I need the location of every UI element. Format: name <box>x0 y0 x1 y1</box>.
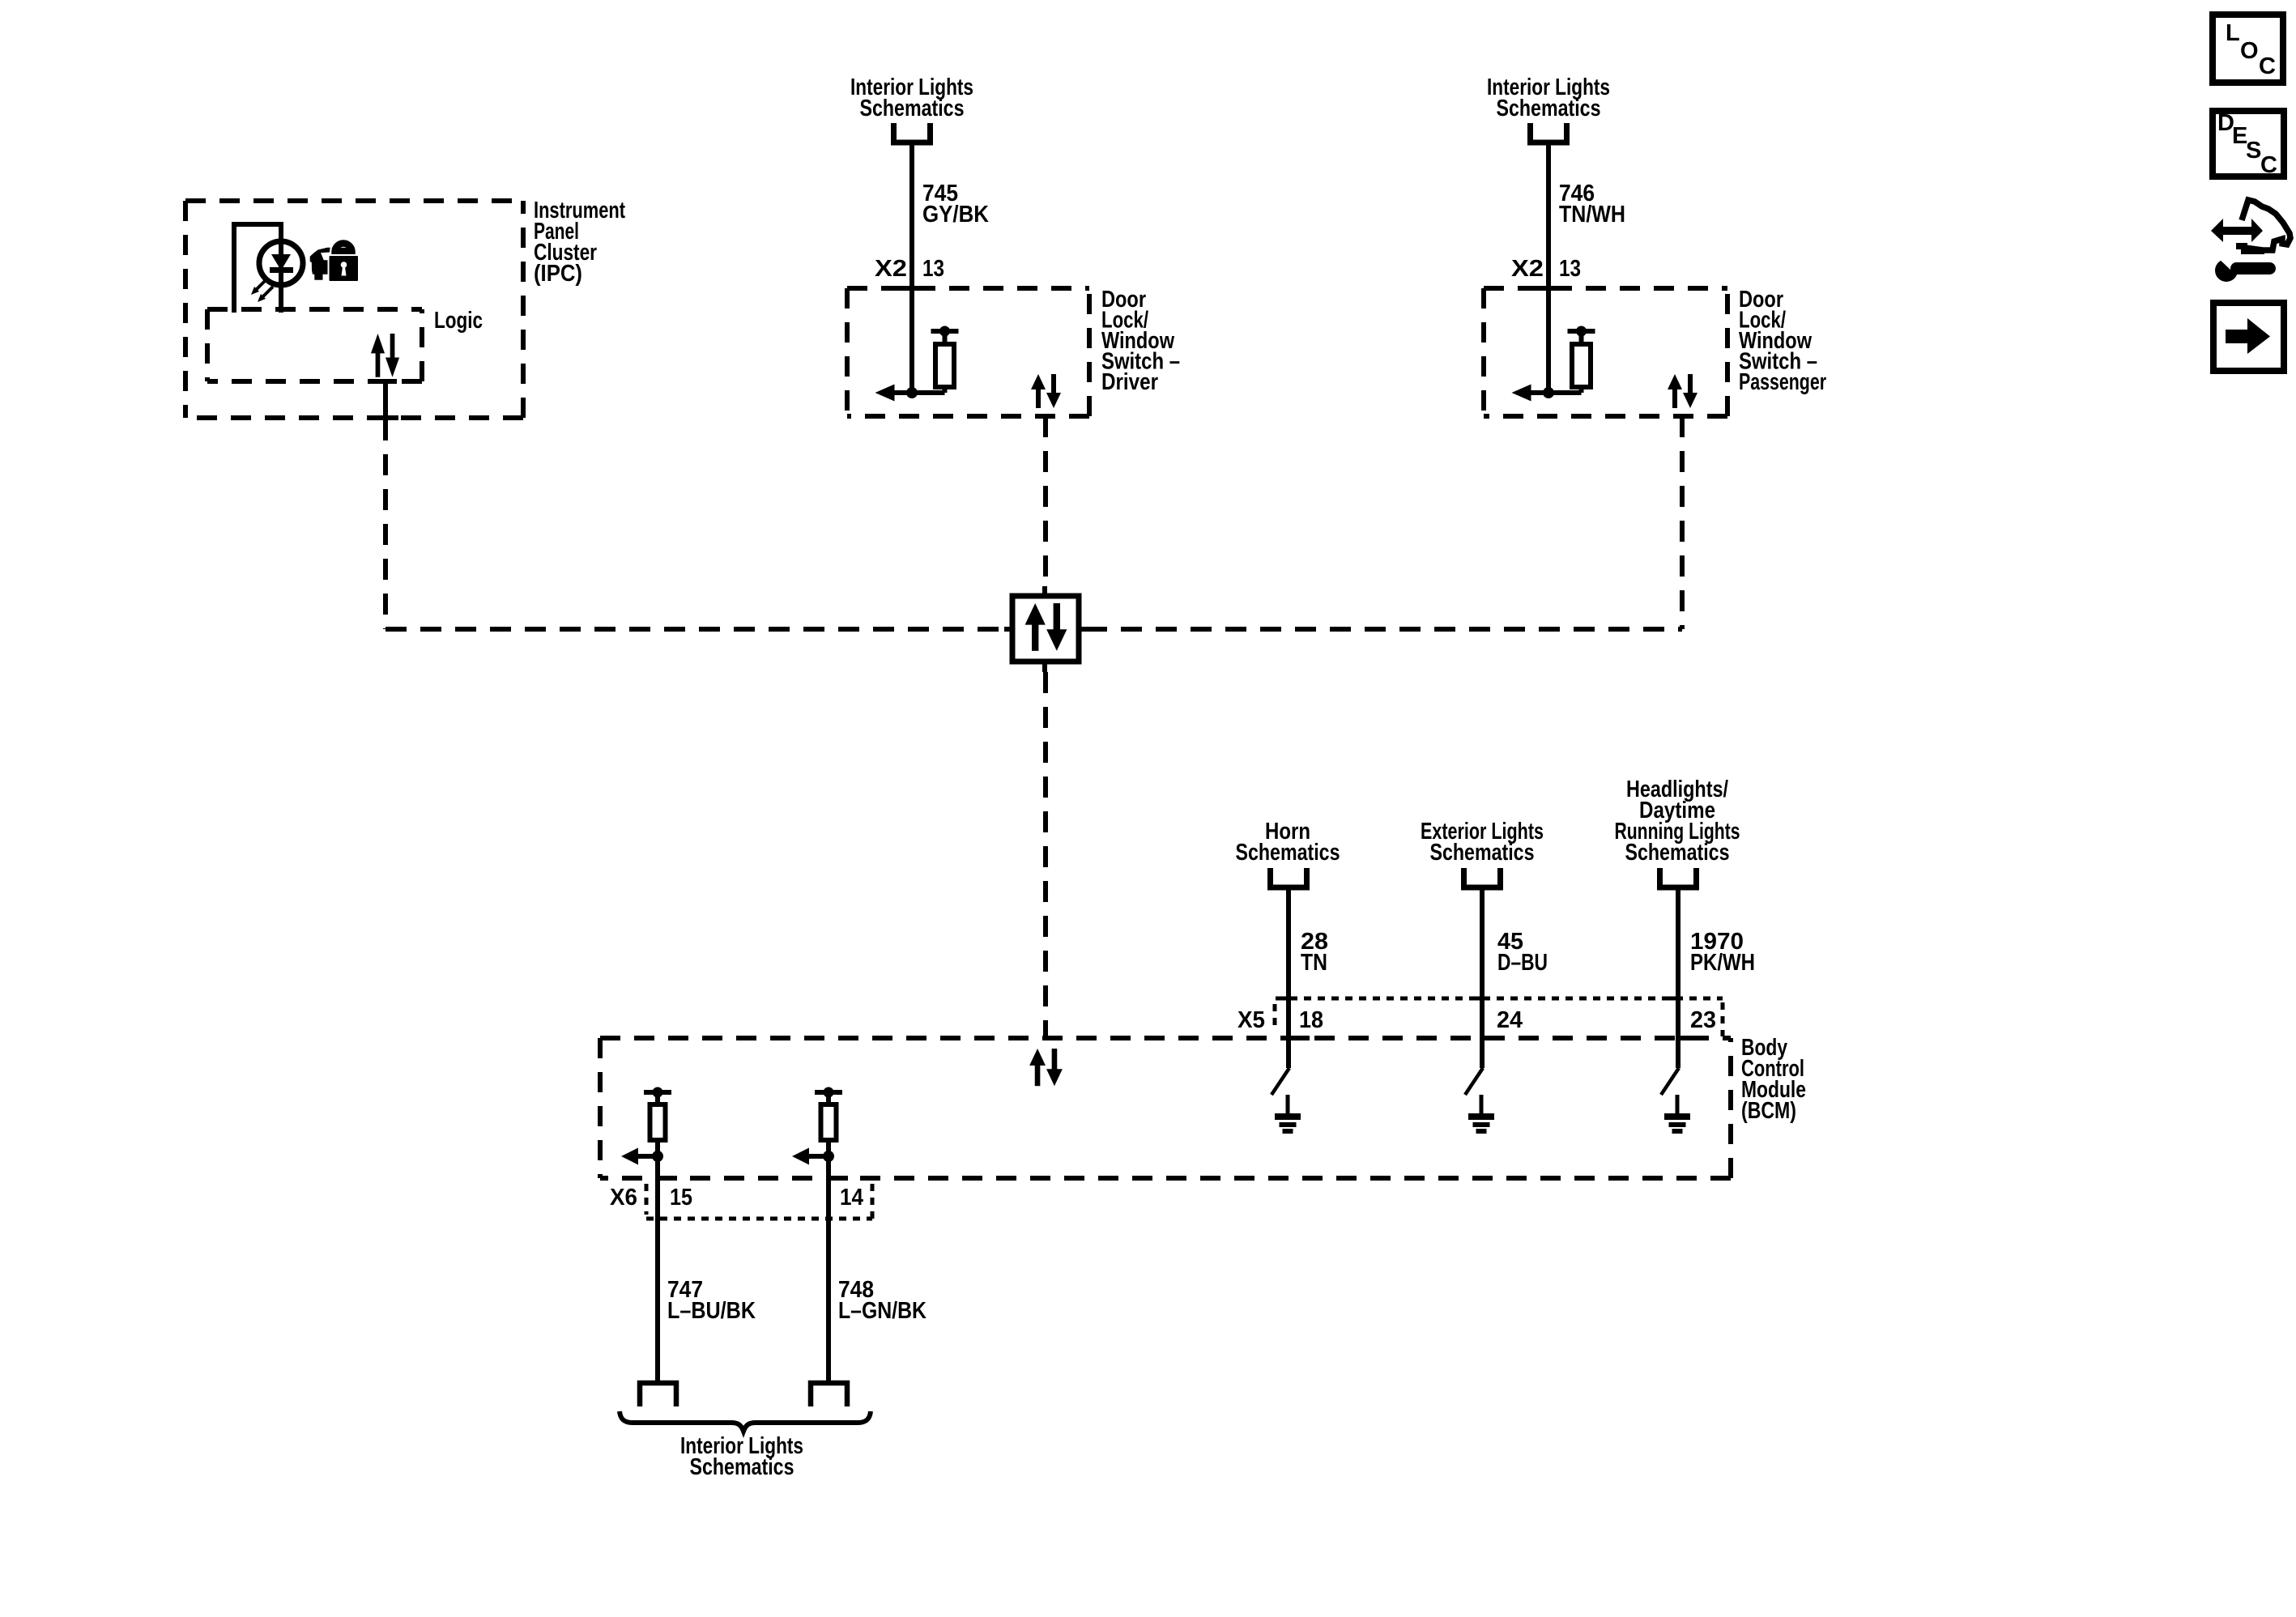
X5 wire ticks <box>1276 998 1699 1038</box>
svg-text:L–GN/BK: L–GN/BK <box>838 1298 926 1324</box>
switch arrows driver <box>1031 374 1061 408</box>
label 748 L-GN/BK <box>838 1277 926 1324</box>
body control module box <box>600 1036 1731 1040</box>
door lock/window switch passenger box <box>1484 286 1727 291</box>
svg-text:Schematics: Schematics <box>860 96 965 121</box>
bus dashed left <box>386 627 1006 632</box>
tick at IPC box bottom <box>376 415 398 420</box>
LED light arrows <box>251 279 273 302</box>
tick at logic box bottom <box>374 379 397 384</box>
svg-text:15: 15 <box>670 1185 692 1211</box>
next-schematic arrow box <box>2213 303 2284 371</box>
svg-text:23: 23 <box>1690 1007 1716 1033</box>
X6 dotted strip <box>646 1184 872 1219</box>
wire 745 <box>909 143 914 393</box>
switch arrows passenger <box>1668 374 1698 408</box>
svg-text:(BCM): (BCM) <box>1741 1098 1796 1124</box>
LED diode line <box>279 241 283 313</box>
svg-text:O: O <box>2240 38 2259 64</box>
wire logic to IPC edge <box>383 381 388 418</box>
terminal 747 <box>640 1383 676 1406</box>
LED telltale loop <box>234 224 281 313</box>
svg-text:GY/BK: GY/BK <box>922 202 989 228</box>
svg-text:C: C <box>2259 53 2276 79</box>
svg-text:L: L <box>2226 20 2240 46</box>
svg-text:L–BU/BK: L–BU/BK <box>667 1298 756 1324</box>
horn bracket <box>1271 868 1307 887</box>
header text driver <box>850 74 973 121</box>
svg-text:(IPC): (IPC) <box>534 261 582 287</box>
off-page bracket driver <box>894 123 931 143</box>
service/hand-wrench icon <box>2211 200 2290 282</box>
horn header <box>1236 819 1340 866</box>
BCM resistor branch 747 <box>621 1087 671 1165</box>
svg-text:PK/WH: PK/WH <box>1690 950 1755 976</box>
rheostat driver <box>875 326 959 402</box>
bus node ticks <box>1004 586 1087 672</box>
under brace <box>620 1411 871 1432</box>
header text passenger <box>1487 74 1610 121</box>
LED cathode bar <box>270 267 293 273</box>
label 747 L-BU/BK <box>667 1277 756 1324</box>
BCM label <box>1741 1035 1806 1124</box>
label 1970 PK/WH <box>1690 929 1755 976</box>
X6 wire ticks <box>659 1176 848 1181</box>
svg-text:Schematics: Schematics <box>1236 840 1340 866</box>
headlights bracket <box>1660 868 1697 887</box>
bus node box <box>1012 596 1079 662</box>
exterior lights header <box>1421 819 1544 866</box>
headlights switch to ground <box>1661 1068 1690 1134</box>
svg-text:X6: X6 <box>610 1185 637 1211</box>
dashed drop from IPC <box>383 419 388 629</box>
label 45 D-BU <box>1497 929 1548 976</box>
svg-text:Passenger: Passenger <box>1739 369 1826 395</box>
svg-text:Schematics: Schematics <box>1430 840 1535 866</box>
wire 747 <box>655 1156 660 1381</box>
BCM resistor branch 748 <box>792 1087 842 1165</box>
dashed drop from passenger box <box>1680 416 1685 629</box>
svg-text:TN: TN <box>1301 950 1327 976</box>
label 746 TN/WH <box>1559 181 1625 228</box>
tick at X2 crossing driver <box>897 286 930 291</box>
bus node arrows <box>1025 603 1067 651</box>
svg-text:Driver: Driver <box>1101 369 1158 395</box>
bus dashed right <box>1086 627 1682 632</box>
headlights header <box>1615 777 1740 866</box>
tick at X2 crossing passenger <box>1534 286 1566 291</box>
terminal 748 <box>811 1383 847 1406</box>
svg-text:TN/WH: TN/WH <box>1559 202 1625 228</box>
svg-text:C: C <box>2260 152 2277 178</box>
LED diode triangle <box>271 254 291 270</box>
exterior switch to ground <box>1465 1068 1494 1134</box>
svg-text:24: 24 <box>1497 1007 1523 1033</box>
car with lock telltale icon <box>310 244 360 283</box>
dashed drop below node <box>1043 672 1048 1038</box>
wire 748 <box>826 1156 831 1381</box>
Instrument Panel Cluster (IPC) box <box>185 198 523 203</box>
svg-text:X2: X2 <box>1511 256 1544 282</box>
svg-text:Schematics: Schematics <box>1625 840 1730 866</box>
driver box label <box>1101 287 1180 395</box>
wire 746 <box>1546 143 1551 393</box>
svg-text:Schematics: Schematics <box>690 1454 794 1480</box>
DESC legend box <box>2213 110 2284 178</box>
IPC label <box>534 198 625 287</box>
LOC legend box <box>2213 15 2283 83</box>
logic box <box>207 307 422 312</box>
BCM serial arrows <box>1029 1049 1063 1086</box>
svg-text:Logic: Logic <box>434 308 483 334</box>
svg-text:S: S <box>2246 138 2261 164</box>
off-page bracket passenger <box>1531 123 1567 143</box>
bottom label <box>680 1433 803 1480</box>
svg-text:14: 14 <box>840 1185 863 1211</box>
X5 dotted strip <box>1275 998 1723 1036</box>
wire 45 D-BU <box>1480 887 1485 1068</box>
svg-text:X5: X5 <box>1237 1007 1265 1033</box>
label 28 TN <box>1301 929 1328 976</box>
passenger box label <box>1739 287 1826 395</box>
svg-text:18: 18 <box>1299 1007 1323 1033</box>
svg-text:13: 13 <box>1559 256 1581 282</box>
svg-text:X2: X2 <box>875 256 907 282</box>
wire 1970 PK/WH <box>1676 887 1680 1068</box>
door lock/window switch driver box <box>847 286 1089 291</box>
wire 28 TN <box>1286 887 1291 1068</box>
svg-text:13: 13 <box>922 256 944 282</box>
logic serial-data arrows <box>371 334 399 377</box>
rheostat passenger <box>1512 326 1595 402</box>
label 745 GY/BK <box>922 181 989 228</box>
svg-text:D–BU: D–BU <box>1497 950 1548 976</box>
LED circle <box>259 241 303 285</box>
dashed drop from driver box <box>1043 416 1048 588</box>
svg-text:Schematics: Schematics <box>1497 96 1601 121</box>
horn switch to ground <box>1272 1068 1301 1134</box>
exterior bracket <box>1464 868 1501 887</box>
